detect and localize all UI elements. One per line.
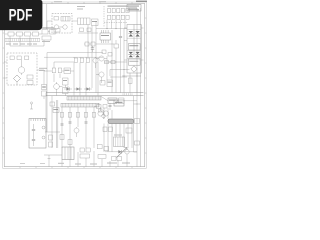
- resistor R19: [112, 157, 122, 161]
- resistor R26: [99, 109, 103, 112]
- bridge rectifier BR1: [14, 75, 21, 85]
- wire: [134, 151, 138, 153]
- capacitor C24: [108, 53, 112, 57]
- resistor R3: [87, 28, 91, 32]
- transistor Q1: [96, 56, 107, 61]
- diode D3: [64, 86, 72, 91]
- capacitor C5: [42, 71, 47, 90]
- resistor R5: [80, 58, 84, 62]
- resistor R4: [74, 58, 78, 62]
- transistor Q6: [103, 111, 108, 116]
- diode D8: [97, 145, 109, 151]
- wire: [78, 21, 98, 57]
- capacitor C9: [119, 29, 122, 56]
- capacitor C10: [52, 62, 56, 82]
- capacitor C22: [85, 122, 88, 123]
- capacitor C21: [69, 122, 72, 123]
- capacitor C23: [61, 124, 64, 125]
- transistor Q3: [96, 72, 104, 83]
- wire: [96, 41, 130, 93]
- wire: [74, 57, 98, 96]
- wire: [96, 28, 127, 44]
- diode D5: [84, 87, 92, 90]
- resistor R23: [80, 148, 90, 152]
- resistor R13: [10, 56, 14, 60]
- diode D4: [74, 87, 82, 90]
- capacitor C12: [119, 98, 125, 104]
- resistor R25: [103, 105, 107, 109]
- transformer T2: [61, 17, 70, 22]
- connector P1 AC inlet: [42, 28, 56, 35]
- +B rail wire: [134, 8, 141, 167]
- relay RL1: [27, 75, 33, 85]
- capacitor C14: [68, 113, 71, 118]
- transistor Q8: [74, 127, 79, 137]
- IC U4: [114, 100, 124, 106]
- resistor R2: [80, 28, 84, 32]
- wire: [44, 62, 74, 71]
- diode D2: [89, 42, 95, 46]
- wire: [45, 58, 94, 148]
- capacitor C8: [86, 58, 90, 62]
- title note box: [127, 5, 141, 12]
- label text: [107, 163, 130, 164]
- wire: [44, 155, 62, 167]
- transistor Q7: [125, 150, 129, 154]
- transformer T1: [122, 25, 144, 93]
- wire: [105, 151, 137, 153]
- resistor R10: [64, 68, 71, 74]
- regulator U3: [108, 98, 117, 104]
- wire: [134, 101, 141, 105]
- capacitor C6: [42, 91, 47, 99]
- capacitor C25: [135, 119, 140, 124]
- diagonal arrow: [117, 148, 128, 158]
- IC U5: [53, 108, 59, 113]
- capacitor C3: [54, 29, 60, 33]
- resistor R27: [105, 61, 109, 64]
- resistor R6: [114, 40, 119, 56]
- resistor R9: [107, 80, 113, 87]
- capacitor C13: [60, 113, 63, 118]
- wire: [47, 53, 103, 58]
- diode D7: [118, 150, 121, 153]
- capacitor C2: [42, 36, 51, 42]
- wire: [107, 20, 125, 29]
- terminal label text: [6, 44, 37, 45]
- net label text: [39, 68, 47, 71]
- output filter box: [62, 147, 74, 160]
- resistor R16: [94, 105, 101, 109]
- wire: [4, 62, 44, 78]
- IC U2 standby controller: [77, 6, 90, 25]
- photocoupler PC1: [54, 25, 67, 29]
- capacitor C17: [92, 113, 95, 118]
- resistor R18: [109, 127, 113, 132]
- diode D1: [84, 42, 89, 46]
- resistor R29: [135, 141, 140, 145]
- spark gap row: [5, 39, 40, 42]
- secondary bus wire: [46, 93, 144, 132]
- wire: [62, 148, 127, 167]
- transistor Q9: [102, 110, 106, 119]
- fuse F1: [5, 32, 16, 36]
- wire dashed: [104, 6, 127, 27]
- heatsink bar: [108, 119, 134, 124]
- wire: [10, 36, 44, 46]
- diode D6: [126, 128, 132, 133]
- resistor R15: [25, 56, 29, 60]
- varistor RV1: [33, 32, 43, 36]
- resistor R22: [68, 140, 72, 145]
- resistor R20: [50, 102, 55, 106]
- capacitor C18: [49, 135, 53, 147]
- filter choke L1: [17, 32, 25, 36]
- resistor R8: [100, 81, 105, 86]
- transistor Q2 switching: [93, 57, 98, 68]
- standby supply box: [52, 14, 72, 34]
- IC U1 PWM controller: [100, 30, 111, 43]
- capacitor C1: [25, 32, 33, 36]
- wire: [101, 96, 134, 100]
- connector CN2 pin row: [108, 6, 130, 13]
- wire: [44, 56, 103, 58]
- capacitor C4: [92, 19, 99, 26]
- bottom label text: [20, 163, 97, 165]
- connector CN3 pin row: [108, 15, 130, 19]
- wire: [46, 4, 48, 29]
- bus bar B2: [61, 103, 99, 107]
- resistor R7: [102, 50, 106, 54]
- resistor R24: [80, 154, 90, 158]
- PDF badge overlay: [0, 0, 43, 31]
- transistor Q4: [54, 82, 60, 96]
- wire: [104, 108, 132, 152]
- degauss circuit box: [7, 53, 37, 85]
- thermistor TH1: [18, 60, 24, 76]
- capacitor C16: [84, 113, 87, 118]
- sheet header text: [54, 1, 147, 3]
- resistor R21: [60, 135, 64, 140]
- resistor R12: [63, 85, 69, 94]
- jumper J1: [30, 102, 33, 109]
- capacitor C15: [76, 113, 79, 118]
- capacitor C7: [91, 46, 94, 52]
- resistor R1: [54, 17, 59, 21]
- relay box K1: [114, 135, 125, 147]
- svg-text:PDF: PDF: [9, 6, 33, 24]
- resistor R17: [103, 127, 107, 132]
- transistor Q5: [98, 107, 103, 116]
- capacitor C11: [58, 68, 62, 78]
- wire: [59, 87, 65, 96]
- capacitor C19: [98, 155, 106, 159]
- bus bar B1: [67, 96, 101, 100]
- wire: [47, 21, 78, 29]
- connector CN4 box: [29, 119, 46, 149]
- resistor R28: [111, 61, 115, 64]
- resistor R14: [17, 56, 21, 60]
- resistor R11: [63, 78, 69, 85]
- pin number ticks: [123, 93, 132, 95]
- capacitor C20: [109, 103, 112, 110]
- wire: [112, 29, 124, 93]
- ground bus wire: [46, 92, 144, 94]
